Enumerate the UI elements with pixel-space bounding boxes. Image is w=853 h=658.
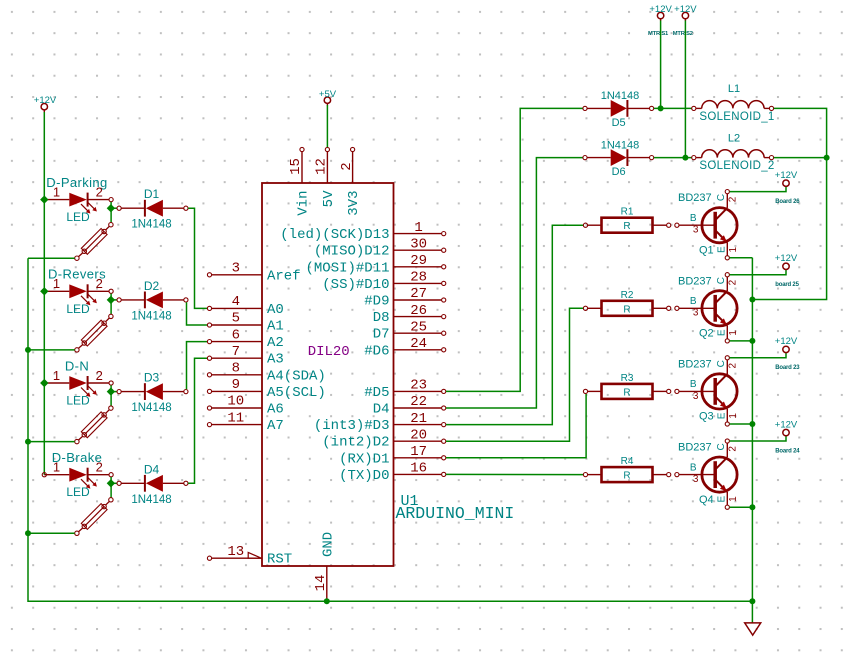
svg-text:2: 2 xyxy=(728,362,739,368)
svg-text:R2: R2 xyxy=(621,290,634,301)
svg-text:R: R xyxy=(623,387,630,398)
svg-text:(TX)D0: (TX)D0 xyxy=(339,468,389,484)
svg-text:A3: A3 xyxy=(267,352,284,368)
svg-text:D7: D7 xyxy=(373,327,390,343)
svg-text:C: C xyxy=(716,277,727,284)
svg-text:ARDUINO_MINI: ARDUINO_MINI xyxy=(396,504,515,523)
svg-text:Vin: Vin xyxy=(296,191,312,216)
svg-text:1: 1 xyxy=(728,330,739,336)
svg-text:13: 13 xyxy=(227,544,244,560)
svg-text:#D5: #D5 xyxy=(364,385,389,401)
svg-text:Aref: Aref xyxy=(267,268,301,284)
svg-text:R4: R4 xyxy=(621,456,634,467)
svg-text:(SS)#D10: (SS)#D10 xyxy=(322,277,389,293)
svg-text:3: 3 xyxy=(232,261,240,277)
svg-text:(int2)D2: (int2)D2 xyxy=(322,435,389,451)
svg-text:2: 2 xyxy=(96,276,103,291)
svg-text:1: 1 xyxy=(728,496,739,502)
svg-text:11: 11 xyxy=(227,410,244,426)
svg-text:C: C xyxy=(716,443,727,450)
svg-text:21: 21 xyxy=(410,411,427,427)
svg-text:E: E xyxy=(717,495,728,502)
svg-text:D-N: D-N xyxy=(65,358,89,373)
svg-text:Board 26: Board 26 xyxy=(775,199,800,205)
svg-text:+12V: +12V xyxy=(674,4,697,15)
svg-text:A1: A1 xyxy=(267,319,284,335)
svg-text:2: 2 xyxy=(96,184,103,199)
svg-text:GND: GND xyxy=(320,532,336,557)
svg-text:A5(SCL): A5(SCL) xyxy=(267,385,326,401)
svg-text:D3: D3 xyxy=(144,371,160,385)
svg-text:1N4148: 1N4148 xyxy=(601,90,640,102)
svg-text:28: 28 xyxy=(410,270,427,286)
svg-text:1: 1 xyxy=(53,368,60,383)
svg-text:1: 1 xyxy=(53,460,60,475)
svg-text:DIL20: DIL20 xyxy=(308,344,350,360)
svg-text:2: 2 xyxy=(728,446,739,452)
svg-text:L1: L1 xyxy=(728,83,740,95)
svg-text:B: B xyxy=(690,296,697,307)
svg-text:SOLENOID_1: SOLENOID_1 xyxy=(699,111,774,123)
svg-text:board 25: board 25 xyxy=(775,282,799,288)
svg-text:A6: A6 xyxy=(267,402,284,418)
svg-text:15: 15 xyxy=(288,158,304,175)
svg-text:1N4148: 1N4148 xyxy=(131,402,171,414)
svg-text:(RX)D1: (RX)D1 xyxy=(339,451,389,467)
svg-text:5V: 5V xyxy=(321,190,337,207)
svg-text:Board 23: Board 23 xyxy=(775,365,800,371)
svg-text:1: 1 xyxy=(728,413,739,419)
svg-text:30: 30 xyxy=(410,236,427,252)
svg-text:(led)(SCK)D13: (led)(SCK)D13 xyxy=(280,227,389,243)
svg-text:#D6: #D6 xyxy=(364,343,389,359)
svg-text:6: 6 xyxy=(232,327,240,343)
svg-text:12: 12 xyxy=(314,158,330,175)
svg-text:B: B xyxy=(690,379,697,390)
svg-text:#D9: #D9 xyxy=(364,294,389,310)
svg-text:D5: D5 xyxy=(612,117,626,129)
svg-text:D4: D4 xyxy=(144,462,160,476)
svg-text:2: 2 xyxy=(728,196,739,202)
svg-text:3: 3 xyxy=(693,474,699,485)
svg-text:Q2: Q2 xyxy=(699,328,714,340)
svg-text:+12V: +12V xyxy=(775,336,798,347)
svg-text:1: 1 xyxy=(53,276,60,291)
svg-text:24: 24 xyxy=(410,336,427,352)
svg-text:Q4: Q4 xyxy=(699,494,714,506)
svg-text:R: R xyxy=(623,221,630,232)
svg-text:R1: R1 xyxy=(621,207,634,218)
svg-text:C: C xyxy=(716,194,727,201)
svg-text:26: 26 xyxy=(410,303,427,319)
svg-text:1N4148: 1N4148 xyxy=(131,310,171,322)
svg-text:B: B xyxy=(690,462,697,473)
svg-text:R: R xyxy=(623,471,630,482)
svg-text:R3: R3 xyxy=(621,373,634,384)
svg-text:D4: D4 xyxy=(373,402,390,418)
svg-text:+12V: +12V xyxy=(775,170,798,181)
svg-text:SOLENOID_2: SOLENOID_2 xyxy=(699,160,774,172)
svg-text:10: 10 xyxy=(227,394,244,410)
svg-text:3: 3 xyxy=(693,308,699,319)
svg-text:16: 16 xyxy=(410,461,427,477)
svg-text:1: 1 xyxy=(53,184,60,199)
svg-text:2: 2 xyxy=(96,368,103,383)
svg-text:1N4148: 1N4148 xyxy=(601,139,640,151)
svg-text:29: 29 xyxy=(410,253,427,269)
svg-text:RST: RST xyxy=(267,552,292,568)
svg-text:E: E xyxy=(717,412,728,419)
svg-text:Q1: Q1 xyxy=(699,245,714,257)
svg-text:A7: A7 xyxy=(267,418,284,434)
svg-text:+12V: +12V xyxy=(34,95,57,106)
svg-text:+12V: +12V xyxy=(775,253,798,264)
svg-text:A0: A0 xyxy=(267,302,284,318)
svg-text:A2: A2 xyxy=(267,335,284,351)
svg-text:1: 1 xyxy=(728,246,739,252)
svg-text:BD237: BD237 xyxy=(678,275,712,287)
svg-text:5: 5 xyxy=(232,311,240,327)
svg-text:1N4148: 1N4148 xyxy=(131,219,171,231)
svg-text:27: 27 xyxy=(410,286,427,302)
svg-text:20: 20 xyxy=(410,427,427,443)
svg-text:L2: L2 xyxy=(728,132,740,144)
svg-text:D6: D6 xyxy=(612,166,626,178)
svg-text:(MOSI)#D11: (MOSI)#D11 xyxy=(305,260,389,276)
svg-text:2: 2 xyxy=(96,460,103,475)
svg-text:R: R xyxy=(623,304,630,315)
svg-text:(MISO)D12: (MISO)D12 xyxy=(314,244,390,260)
svg-text:BD237: BD237 xyxy=(678,192,712,204)
svg-text:A4(SDA): A4(SDA) xyxy=(267,368,326,384)
svg-text:7: 7 xyxy=(232,344,240,360)
svg-text:D2: D2 xyxy=(144,279,160,293)
svg-text:+12V: +12V xyxy=(775,419,798,430)
svg-text:D8: D8 xyxy=(373,310,390,326)
svg-text:Q3: Q3 xyxy=(699,411,714,423)
svg-text:(int3)#D3: (int3)#D3 xyxy=(314,418,390,434)
svg-text:9: 9 xyxy=(232,377,240,393)
svg-text:+5V: +5V xyxy=(319,89,337,100)
svg-text:BD237: BD237 xyxy=(678,358,712,370)
svg-text:Board 24: Board 24 xyxy=(775,448,800,454)
svg-text:22: 22 xyxy=(410,394,427,410)
svg-text:25: 25 xyxy=(410,319,427,335)
svg-text:C: C xyxy=(716,360,727,367)
svg-text:1: 1 xyxy=(414,220,422,236)
svg-text:+12V: +12V xyxy=(649,4,672,15)
svg-text:E: E xyxy=(717,329,728,336)
svg-text:3: 3 xyxy=(693,225,699,236)
svg-text:MTR S2: MTR S2 xyxy=(673,31,693,37)
svg-text:BD237: BD237 xyxy=(678,442,712,454)
svg-text:17: 17 xyxy=(410,444,427,460)
svg-text:3V3: 3V3 xyxy=(346,191,362,216)
svg-text:E: E xyxy=(717,246,728,253)
svg-text:8: 8 xyxy=(232,361,240,377)
svg-text:MTR S1: MTR S1 xyxy=(648,31,669,37)
svg-text:B: B xyxy=(690,213,697,224)
svg-text:2: 2 xyxy=(728,279,739,285)
svg-text:4: 4 xyxy=(232,294,240,310)
svg-text:2: 2 xyxy=(339,162,355,170)
svg-text:23: 23 xyxy=(410,378,427,394)
svg-text:1N4148: 1N4148 xyxy=(131,494,171,506)
svg-text:3: 3 xyxy=(693,391,699,402)
svg-text:14: 14 xyxy=(313,575,329,592)
svg-text:D1: D1 xyxy=(144,187,160,201)
